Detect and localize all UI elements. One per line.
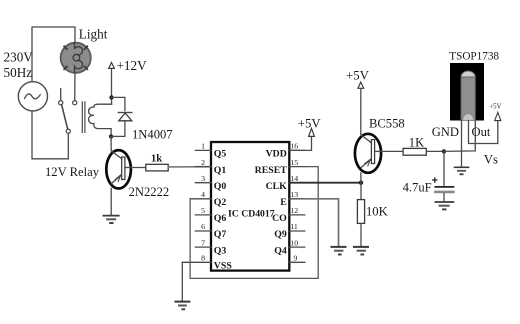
U1 pin 9 [289,254,305,263]
U1 pin 7 (Q3) [195,238,226,256]
ground under VSS [175,302,189,310]
label BC558 [369,117,405,131]
wire Q1 base to resistor [131,167,146,169]
resistor R2 1K [403,148,426,155]
wire pin13 E to ground [305,199,339,247]
wire pin14 CLK to Q2 collector node [289,182,361,184]
U1 pin 14 (CLK) [266,174,305,192]
svg-text:8: 8 [201,254,205,263]
label Vs [484,152,498,166]
svg-text:50Hz: 50Hz [4,65,33,80]
U1 pin 13 (E) [280,190,305,208]
label Out [472,125,491,139]
wire resistor to pin 2 [168,166,211,168]
resistor R1 1k [146,164,168,171]
wire pin15 RESET loop to pin4 Q2 [190,167,318,279]
wire lamp to switch contact [74,73,76,100]
svg-text:VSS: VSS [214,261,233,272]
svg-text:3: 3 [201,174,205,183]
+5V supply arrow at TSOP [495,112,501,120]
ground under Q1 [103,216,118,223]
label +5V small [489,104,501,111]
relay core [82,102,85,132]
ground under 10K [354,247,368,255]
svg-text:16: 16 [290,142,298,151]
U1 pin 3 (Q0) [195,174,226,192]
wire Q2 bottom to CLK node [360,173,362,183]
wire Q2 base to R2 [381,150,403,152]
label 4.7uF [403,181,432,195]
wire 10K to ground [360,223,362,246]
wire TSOP GND leg to ground [461,121,463,168]
wire Q1 emitter to ground [110,188,112,215]
svg-text:BC558: BC558 [369,117,405,131]
wire node to TSOP Out leg [444,121,475,152]
U1 pin 15 (RESET) [255,158,305,176]
wire pin16 VDD to +5V [289,137,311,151]
transistor Q1 2N2222 [106,150,131,188]
U1 pin 16 (VDD) [266,142,305,160]
svg-text:13: 13 [290,190,298,199]
svg-text:Q1: Q1 [214,165,227,176]
svg-text:4.7uF: 4.7uF [403,181,432,195]
svg-text:Vs: Vs [484,152,498,166]
svg-text:6: 6 [201,222,205,231]
svg-text:Q6: Q6 [214,213,227,224]
svg-text:Out: Out [472,125,491,139]
wire source bottom to switch pole [32,111,68,159]
label 230V 50Hz [4,50,34,80]
svg-text:1N4007: 1N4007 [132,127,173,141]
U1 pin 8 (VSS) [182,254,232,272]
svg-text:Q7: Q7 [214,229,227,240]
node bottom relay junction [109,134,113,138]
svg-text:E: E [280,197,287,208]
U1 pin 4 (Q2) [190,190,226,208]
+5V supply arrow at VDD [309,128,315,136]
label +5V [298,116,322,130]
svg-text:230V: 230V [4,50,34,65]
wire node to capacitor [443,151,445,186]
svg-text:Q4: Q4 [274,245,287,256]
svg-text:IC CD4017: IC CD4017 [228,209,275,220]
label 2N2222 [129,185,170,199]
ground under capacitor [435,202,453,209]
relay coil L1 [89,104,112,128]
svg-text:+12V: +12V [117,58,148,73]
svg-text:11: 11 [290,222,298,231]
resistor R3 10K [357,200,364,224]
ac source V1 [18,82,47,111]
IC U1 CD4017 box [211,142,289,271]
label 12V Relay [45,165,100,179]
label 10K [366,205,388,219]
svg-text:5: 5 [201,206,205,215]
wire capacitor to ground [443,193,445,202]
node CLK junction [359,181,363,185]
label GND [432,125,459,139]
svg-text:+5V: +5V [489,104,501,111]
lamp (Light) [61,43,91,73]
U1 pin 1 (Q5) [195,142,226,160]
label 1N4007 [132,127,173,141]
+12V supply arrow [109,63,115,97]
wire R2 to node [426,150,444,152]
label TSOP1738 [449,50,499,62]
transistor Q2 BC558 [355,134,381,173]
node R2/C1/Out junction [442,149,446,153]
label 1K [409,136,424,150]
svg-text:+5V: +5V [298,116,322,130]
svg-text:2: 2 [201,158,205,167]
ground under TSOP [455,167,469,174]
svg-text:+5V: +5V [346,69,370,83]
svg-text:Q9: Q9 [274,229,287,240]
+5V supply arrow above Q2 [358,82,364,134]
svg-text:15: 15 [290,158,298,167]
ground under pin13 [332,247,346,255]
label +12V [117,58,148,73]
svg-text:12V Relay: 12V Relay [45,165,100,179]
svg-text:VDD: VDD [266,149,287,160]
svg-text:9: 9 [294,254,298,263]
label 1k [151,154,162,165]
svg-text:Q5: Q5 [214,149,227,160]
wire top loop source to lamp [32,27,75,82]
svg-text:CLK: CLK [266,181,288,192]
capacitor C1 4.7uF [433,178,454,192]
wire relay node to Q1 collector [110,136,112,150]
svg-text:Q2: Q2 [214,197,227,208]
svg-text:GND: GND [432,125,459,139]
svg-text:7: 7 [201,238,205,247]
svg-text:1: 1 [201,142,205,151]
U1 pin 10 (Q4) [274,238,305,256]
svg-text:14: 14 [290,174,298,183]
U1 pin 5 (Q6) [195,206,226,224]
svg-text:1K: 1K [409,136,424,150]
svg-text:10: 10 [290,238,298,247]
svg-text:12: 12 [290,206,298,215]
svg-text:1k: 1k [151,154,162,165]
wire TSOP Vs leg to +5V [469,120,498,143]
svg-text:TSOP1738: TSOP1738 [449,50,499,62]
wire VSS pin8 to ground [181,262,183,301]
U1 pin 11 (Q9) [274,222,305,240]
U1 pin 2 (Q1) [195,158,226,176]
U1 pin 6 (Q7) [195,222,226,240]
label IC CD4017 [228,209,275,220]
U1 pin 12 (CO) [272,206,305,224]
label Light [79,27,108,42]
svg-text:Q3: Q3 [214,245,227,256]
wire node to 10K [360,183,362,200]
svg-text:RESET: RESET [255,165,288,176]
svg-text:Q0: Q0 [214,181,227,192]
relay switch contact [59,89,77,134]
svg-text:10K: 10K [366,205,388,219]
svg-text:Light: Light [79,27,108,42]
IR receiver U2 TSOP1738 [450,63,484,121]
svg-text:4: 4 [201,190,205,199]
wire coil stubs to nodes [111,97,113,104]
node top relay junction [109,95,113,99]
svg-text:CO: CO [272,213,287,224]
svg-text:2N2222: 2N2222 [129,185,170,199]
label +5V [346,69,370,83]
diode D1 1N4007 [111,97,132,136]
